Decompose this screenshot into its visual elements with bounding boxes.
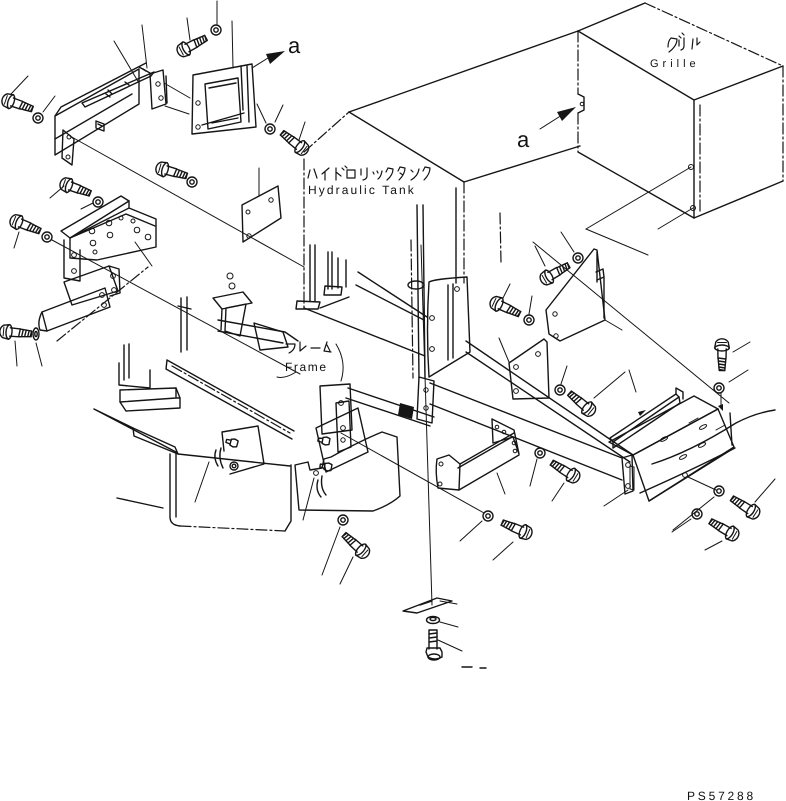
bolt B9 axis line: [720, 393, 722, 407]
plate P14 bar: [39, 288, 110, 331]
leader to bolt B5: [535, 246, 545, 266]
leader from grille upper hole: [586, 167, 691, 255]
long leader from tower to washer W13: [341, 433, 484, 513]
leader to washer W8: [561, 366, 567, 384]
leader from drain plug: [438, 640, 462, 651]
bracket BR1 top flange: [61, 196, 129, 238]
long thin rail: [166, 360, 294, 439]
leader to bolt top-center: [187, 18, 190, 40]
frame edge toward left box: [218, 320, 298, 343]
washer W5: [573, 253, 583, 263]
small bolt on plate P9 upper: [317, 436, 330, 446]
connector beam to plate upper: [164, 83, 190, 98]
tower plate P11: [336, 401, 351, 452]
svg-text:a: a: [517, 127, 530, 152]
right box front hole: [683, 473, 688, 478]
leader from bolt B14: [552, 483, 564, 501]
bracket BR1 main face: [70, 208, 156, 260]
washer W13: [483, 511, 493, 521]
plate P9: [316, 408, 368, 497]
bolt B15: [339, 529, 372, 561]
right box left flange: [622, 455, 634, 494]
grille mounting hole lower: [691, 206, 696, 211]
washer top-center: [211, 25, 221, 35]
U-bracket right ear: [492, 419, 519, 454]
connector beam to plate lower: [165, 106, 189, 114]
beam front clip: [96, 121, 104, 131]
washer W11: [692, 509, 702, 519]
hydraulic tank top corner lines: [304, 31, 580, 182]
leader to bolt far top-left: [11, 76, 28, 94]
leader to washer W5: [561, 232, 574, 252]
tank right edge: [463, 182, 465, 283]
leader from bracket BR1: [135, 242, 152, 266]
small bolt on plate P9 lower: [319, 462, 332, 472]
leader to beam slot: [114, 41, 139, 83]
frame left box body: [117, 452, 291, 531]
beam end cap: [139, 67, 167, 109]
leader to plate P2: [258, 168, 260, 196]
hinge washer: [230, 462, 238, 470]
leader arc near Frame label: [336, 344, 343, 381]
corner gusset: [254, 323, 288, 350]
post pair left: [178, 297, 191, 352]
plate P13 bar: [64, 266, 120, 305]
breather axis dash: [500, 213, 501, 262]
leader from washer W15: [322, 527, 340, 575]
leader to bolt B7: [503, 284, 510, 298]
label ハイドロリックタンク: [308, 166, 430, 180]
washer W10: [714, 486, 724, 496]
bolt B4: [8, 212, 43, 237]
bracket beam top face: [55, 63, 146, 155]
leader from U-bracket: [497, 473, 505, 494]
bolt B14: [548, 456, 583, 485]
leader above plate P8: [499, 338, 509, 362]
mid rail to right: [346, 388, 434, 426]
frame rail top edge pair: [466, 341, 633, 462]
tank right post: [408, 205, 425, 378]
leader to washer W3: [81, 203, 93, 209]
bolt B9 vertical: [715, 339, 730, 371]
leader to washer W7: [529, 296, 532, 314]
bolt B16 far left: [0, 324, 32, 341]
leaders to washer W2: [257, 104, 283, 123]
washer W18: [187, 177, 197, 187]
right box front face: [633, 409, 734, 501]
cover C1: [295, 432, 400, 511]
washer W4: [42, 232, 52, 242]
washer W7: [524, 315, 534, 325]
svg-text:Frame: Frame: [285, 360, 328, 374]
leader from cover C1 hole: [303, 478, 314, 520]
leader from washer W14: [530, 459, 537, 486]
section arrow a (top): [252, 33, 301, 68]
washer W8: [555, 385, 565, 395]
drain plug bolt: [426, 630, 442, 660]
tank inner posts: [296, 245, 349, 309]
corner mark on box: [718, 404, 723, 411]
lower break curve: [640, 448, 735, 493]
svg-text:Grille: Grille: [650, 58, 700, 70]
tall plate P6: [428, 277, 471, 377]
washer W3: [93, 197, 103, 207]
bolt far top-left: [0, 92, 35, 116]
leaders below bolt B16: [15, 341, 42, 366]
U-bracket main face: [458, 433, 519, 490]
leader to bolt B4: [14, 232, 19, 248]
bolt top-center: [175, 31, 210, 59]
hinge bolt: [225, 437, 238, 448]
section arrow a (right): [517, 107, 576, 152]
leader from plate P5 corner: [605, 320, 622, 330]
leader from washer W4 to frame: [52, 240, 300, 374]
washer W2: [265, 124, 275, 134]
beam slot: [82, 72, 154, 107]
right box break curve: [652, 410, 775, 464]
leader to angle strip: [629, 370, 636, 392]
bolt B2 center: [278, 127, 312, 158]
plate P5: [546, 249, 605, 341]
leader to bolt B3: [50, 186, 64, 198]
right box slot marks: [660, 418, 725, 460]
bolt B5: [538, 259, 573, 287]
leader from box hole to washer W10: [688, 477, 716, 490]
svg-text:a: a: [288, 33, 301, 58]
grille box top face: [578, 3, 783, 100]
Z-plate left of frame: [213, 273, 252, 336]
label フレーム: [286, 342, 331, 353]
frame left box top bar: [94, 409, 178, 454]
leader from bolt B10: [755, 479, 775, 502]
frame rail back top edge: [533, 242, 729, 403]
leader to beam end cap: [142, 25, 147, 68]
leader from washer W19: [440, 622, 458, 627]
gasket shim: [403, 598, 452, 613]
label グリル: [668, 33, 700, 52]
small bracket on rail: [119, 344, 150, 388]
bolt B11: [707, 515, 742, 543]
long leader to drain plug: [421, 245, 432, 605]
leader to bolt B2: [299, 122, 305, 140]
leader from bolt B11: [705, 541, 722, 550]
bolt B10: [728, 492, 763, 522]
leader from hinge cluster: [195, 462, 209, 502]
washer W19 flat: [427, 617, 440, 624]
leader to washer top-center: [216, 1, 218, 24]
washer W17 edge-on: [33, 328, 39, 340]
leader from grille lower hole: [658, 208, 693, 229]
U-bracket left flange: [436, 455, 460, 490]
bolt B3: [58, 176, 93, 201]
bolt B7: [488, 294, 523, 321]
plate P1 with window: [192, 64, 256, 134]
plate P12: [417, 377, 434, 423]
tank right inner edge: [455, 188, 457, 283]
leader from bolt B15: [340, 557, 353, 584]
bolt B17: [154, 160, 189, 183]
washer W15: [338, 515, 348, 525]
small block under rail: [120, 388, 180, 411]
tower plate P10: [320, 384, 352, 434]
leaders to bolt B9: [729, 342, 750, 382]
plate P2: [242, 186, 281, 242]
leader from box flange: [604, 490, 628, 506]
grille box front face: [578, 31, 700, 218]
leader to washer top-left: [43, 96, 55, 112]
leader from washer W10: [673, 497, 714, 530]
leader from bolt B8: [594, 372, 625, 398]
tank left edge: [303, 159, 305, 308]
leader arc below Frame label: [277, 372, 296, 377]
right box top face: [609, 396, 718, 455]
grille box right face: [694, 66, 783, 218]
angle strip on box: [610, 388, 683, 448]
leader from washer W11: [672, 519, 691, 532]
beam left flange: [62, 130, 74, 165]
tank bottom edge: [304, 308, 425, 356]
leader from bolt B13: [493, 542, 513, 560]
leader from washer W18 through plate P2: [70, 136, 304, 267]
bolt B8: [565, 388, 599, 420]
leader to plate P1: [232, 21, 233, 68]
washer W14: [535, 448, 545, 458]
svg-text:PS57288: PS57288: [687, 789, 756, 801]
plate P8: [509, 339, 549, 399]
washer W9: [714, 383, 724, 393]
dark wedge bracket: [398, 403, 414, 419]
washer top-left: [33, 113, 43, 123]
frame upper edge pair: [356, 272, 427, 320]
bolt B13: [499, 516, 534, 542]
bracket BR1 left flange: [64, 240, 80, 281]
leader from gasket: [440, 601, 457, 604]
break dashes bottom: [462, 667, 486, 668]
hinge plate cluster: [215, 426, 264, 474]
grille mounting hole upper: [689, 165, 694, 170]
chain line lower-left: [57, 267, 148, 341]
frame rail front face: [430, 383, 622, 480]
svg-text:Hydraulic Tank: Hydraulic Tank: [308, 183, 416, 197]
leader from washer W13: [460, 521, 482, 541]
